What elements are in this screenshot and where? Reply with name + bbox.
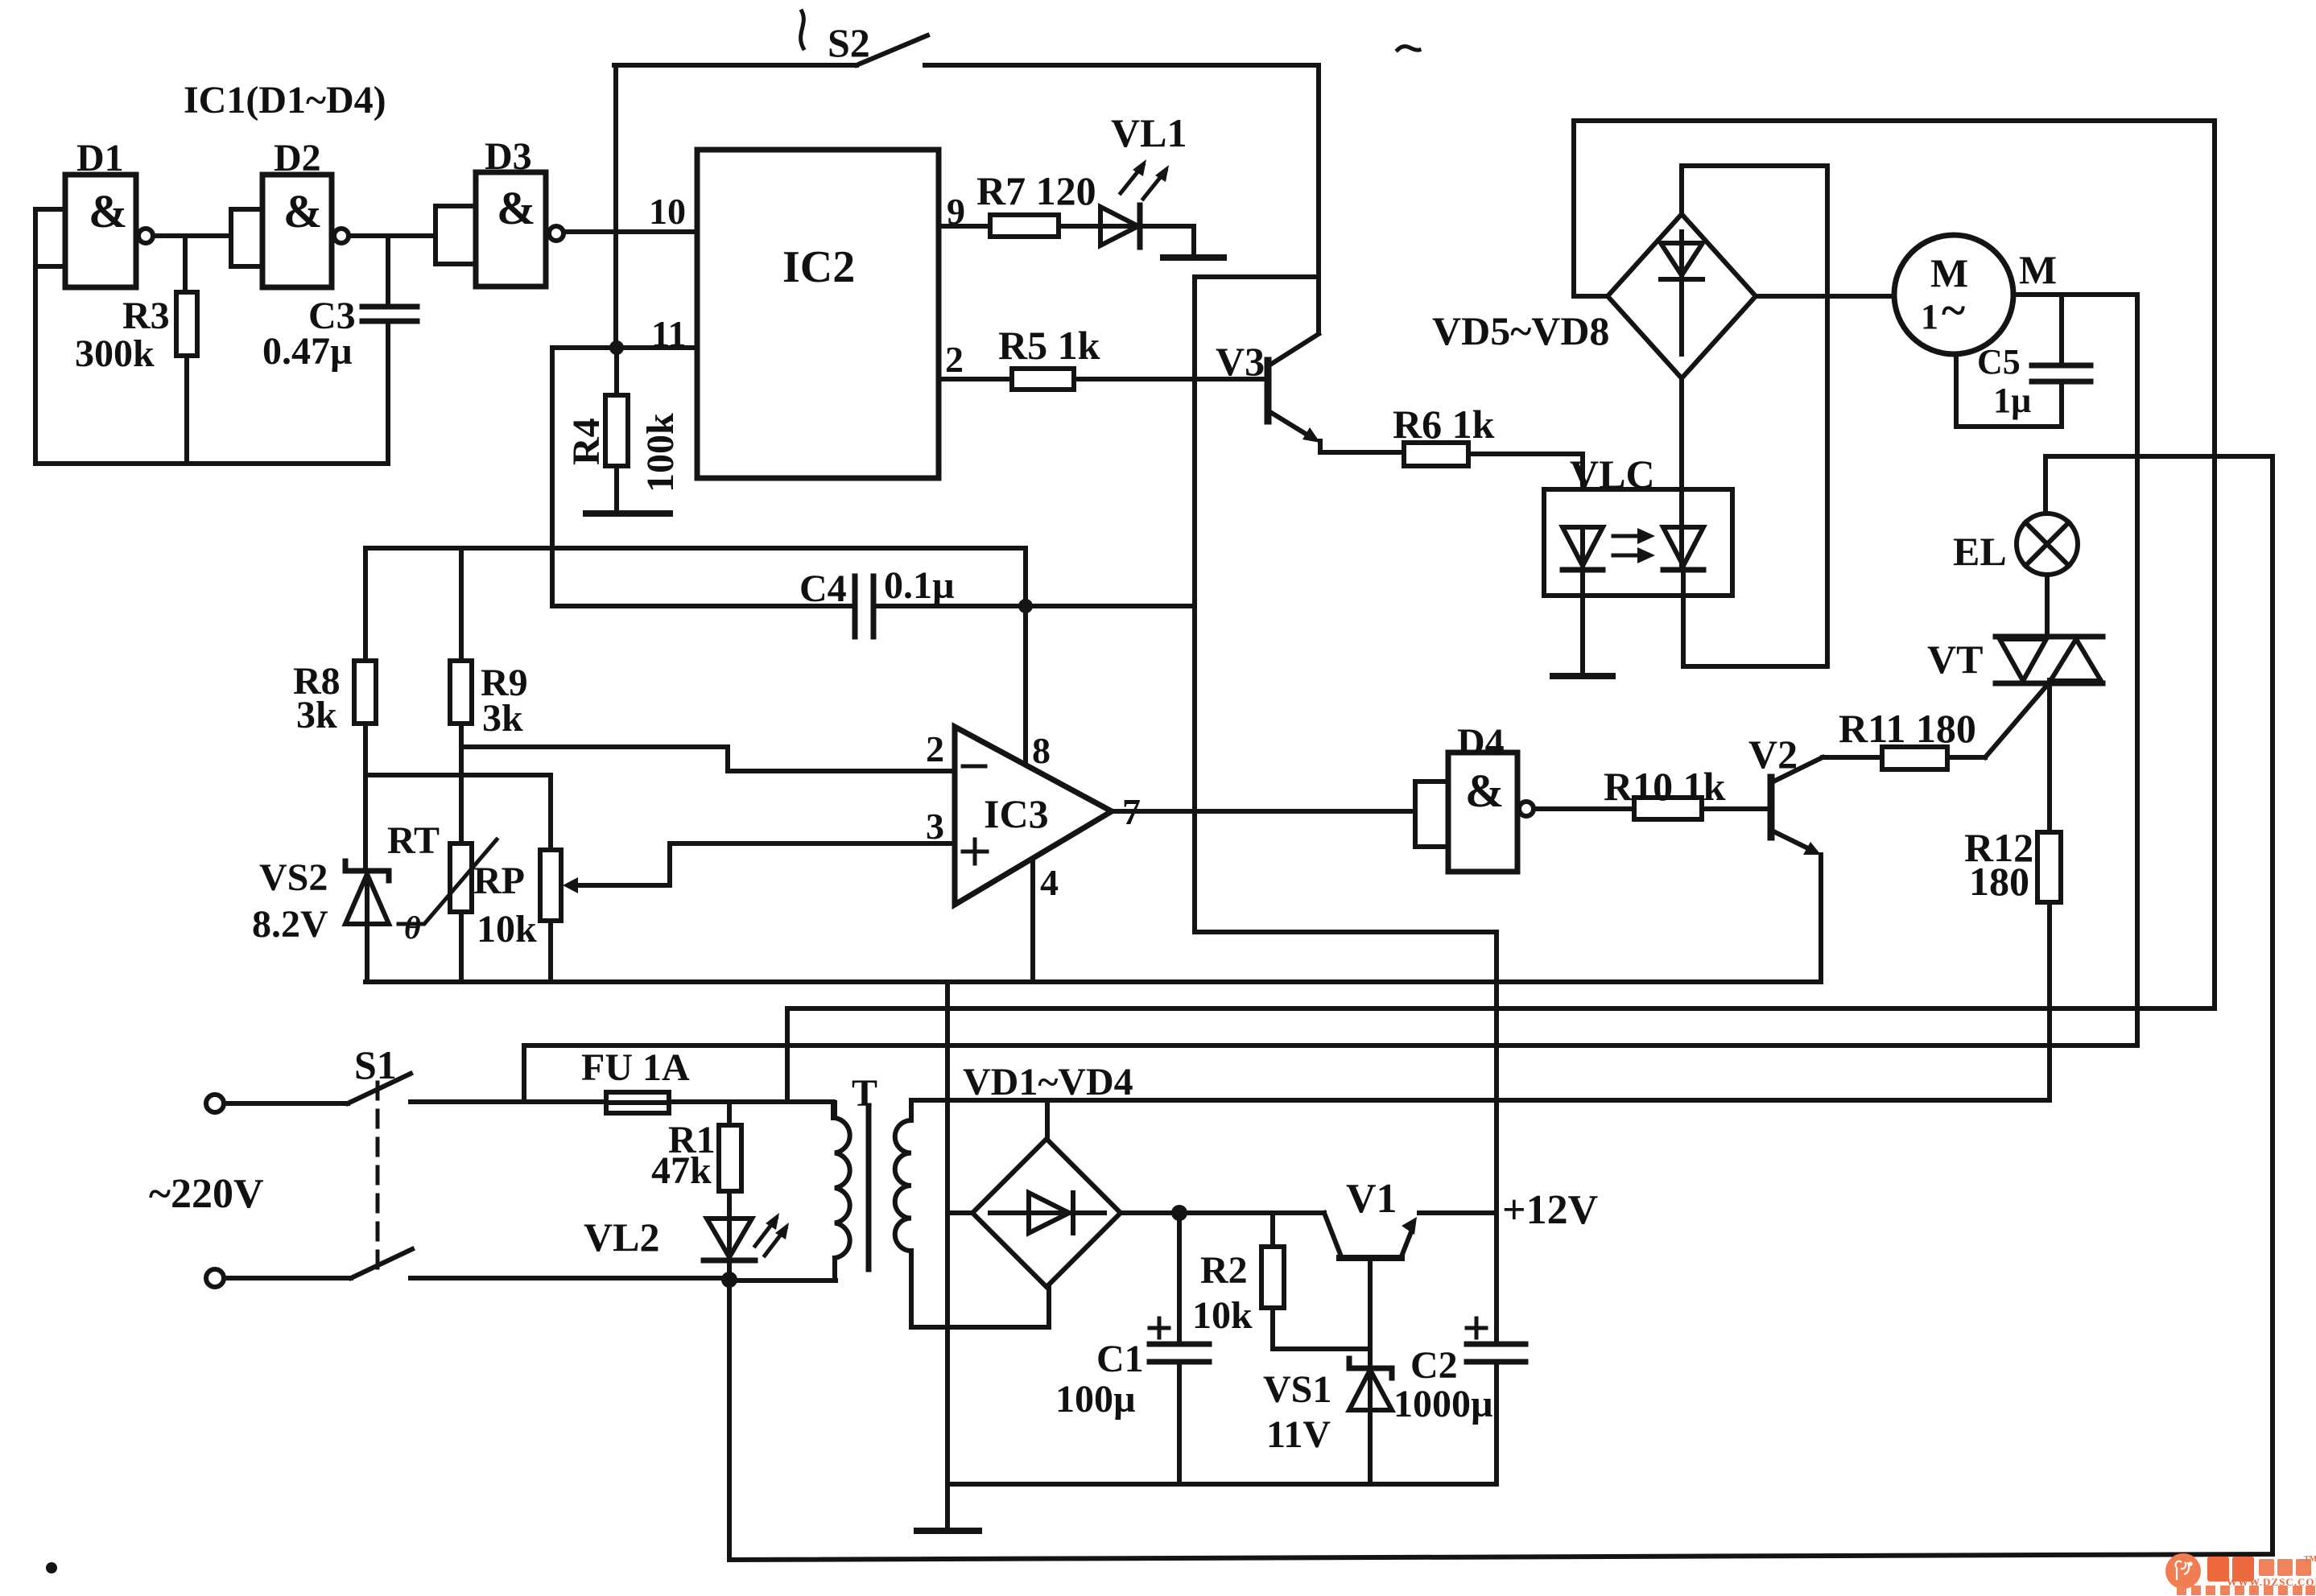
wire R4 to ground xyxy=(614,466,619,512)
svg-text:VS1: VS1 xyxy=(1263,1368,1331,1411)
svg-text:~220V: ~220V xyxy=(149,1171,264,1217)
switch S2 xyxy=(614,20,1319,65)
wire EL node horizontal xyxy=(2046,454,2273,459)
svg-text:8: 8 xyxy=(1032,730,1051,771)
arrows light xyxy=(1613,528,1655,563)
lamp EL xyxy=(1953,513,2078,575)
svg-text:IC1(D1~D4): IC1(D1~D4) xyxy=(184,79,386,122)
node C1 junction xyxy=(1171,1205,1187,1221)
wire R3 top drop xyxy=(183,236,188,292)
svg-text:FU 1A: FU 1A xyxy=(581,1046,690,1089)
wire VS2 bottom xyxy=(365,924,369,982)
wire R11 to VT gate xyxy=(1947,755,1985,760)
zener VS2 xyxy=(252,856,389,946)
svg-text:RP: RP xyxy=(473,860,525,902)
wire bridge DC+ loop to VLC xyxy=(1682,166,1827,666)
wire bottom rail IC1 xyxy=(35,461,388,466)
svg-text:11V: 11V xyxy=(1266,1413,1331,1456)
wire pin 9 xyxy=(939,224,990,229)
svg-text:3k: 3k xyxy=(482,697,523,740)
wire C4 left xyxy=(552,604,855,608)
wire ground drop from rail H_a xyxy=(945,982,950,1529)
svg-text:D4: D4 xyxy=(1457,721,1505,764)
and gate D4 xyxy=(1415,721,1534,872)
wire C2 bottom xyxy=(1494,1362,1499,1484)
svg-text:C5: C5 xyxy=(1977,342,2021,381)
wire VL1 to ground xyxy=(1140,226,1194,256)
LED VL2 xyxy=(584,1213,789,1260)
resistor R11 xyxy=(1839,706,1976,769)
wire VLC LED to ground xyxy=(1580,570,1585,673)
wire bridge minus stub xyxy=(947,1210,972,1215)
wire junction to R4 xyxy=(614,348,619,395)
wire rail R8 to RP top xyxy=(365,773,551,777)
wire R1 to VL2 xyxy=(727,1191,732,1219)
op-amp IC3 xyxy=(926,727,1141,905)
svg-text:100k: 100k xyxy=(639,413,682,493)
wire R2 bottom to V1 base xyxy=(1273,1308,1370,1349)
wire neutral from S1 xyxy=(411,1276,729,1281)
svg-text:2: 2 xyxy=(945,339,964,380)
resistor R1 xyxy=(651,1119,741,1192)
svg-text:C2: C2 xyxy=(1410,1344,1458,1387)
bridge rectifier VD5-VD8 xyxy=(1432,214,1756,378)
svg-text:VS2: VS2 xyxy=(259,856,328,899)
zener VS1 xyxy=(1263,1359,1392,1456)
svg-text:4: 4 xyxy=(1040,862,1059,903)
LED VL1 xyxy=(1100,110,1187,247)
wire ground rail H_a xyxy=(365,979,1821,984)
wire C1 top xyxy=(1177,1213,1182,1342)
wire drop to bridge VD1-VD4 top xyxy=(1045,1100,1050,1139)
transformer T secondary xyxy=(852,1072,911,1251)
potentiometer RP xyxy=(473,850,578,951)
wire +12V row left xyxy=(1121,1210,1324,1215)
wire D1 feedback left xyxy=(33,266,38,464)
resistor R9 xyxy=(450,661,528,740)
wire bottom return rail xyxy=(729,456,2273,1560)
svg-text:T: T xyxy=(852,1072,877,1115)
svg-text:~: ~ xyxy=(1942,286,1965,336)
wire S2 left drop to pin 11 node xyxy=(613,65,618,348)
svg-text:VL1: VL1 xyxy=(1111,110,1187,155)
svg-text:θ: θ xyxy=(404,909,421,946)
ground R4 xyxy=(586,510,670,517)
svg-text:IC2: IC2 xyxy=(782,242,855,292)
svg-text:1µ: 1µ xyxy=(1993,381,2031,420)
svg-text:&: & xyxy=(497,182,535,234)
svg-text:D1: D1 xyxy=(76,137,124,179)
wire R8 top xyxy=(363,548,368,661)
svg-text:2: 2 xyxy=(926,728,944,769)
svg-text:R10 1k: R10 1k xyxy=(1604,764,1726,809)
resistor R3 xyxy=(176,292,197,356)
wire IC3 pin 8 xyxy=(1023,606,1028,765)
wire RP bottom xyxy=(548,921,553,982)
wire R6 to VLC xyxy=(1468,454,1583,527)
wire D2 output to D3 xyxy=(349,233,436,238)
node neutral junction xyxy=(721,1272,737,1288)
svg-text:R2: R2 xyxy=(1200,1249,1248,1292)
wire pin 11 xyxy=(552,345,697,350)
svg-text:VD1~VD4: VD1~VD4 xyxy=(963,1061,1133,1103)
wire live feed H2 to motor node xyxy=(524,1045,2137,1102)
triac VT xyxy=(1927,637,2103,757)
svg-text:R4: R4 xyxy=(565,418,608,465)
ground VLC xyxy=(1553,673,1612,679)
wire S2 drop to V3 collector xyxy=(1316,65,1321,333)
wire V3 emitter down xyxy=(1318,441,1323,452)
wire RP top xyxy=(548,775,553,850)
wire R9 top xyxy=(459,548,464,661)
wire R7 to VL1 xyxy=(1059,224,1100,229)
wire C3 bottom xyxy=(386,323,390,464)
wire RP wiper to IC3 pin 3 xyxy=(575,843,955,885)
svg-text:1000µ: 1000µ xyxy=(1393,1383,1493,1425)
LED in VLC xyxy=(1563,527,1603,570)
wire pin 2 xyxy=(939,377,1012,381)
wire VL2 to bottom rail xyxy=(727,1260,732,1559)
svg-text:R6 1k: R6 1k xyxy=(1393,402,1495,447)
wire R8 bottom to VS2 xyxy=(363,724,368,871)
svg-text:10k: 10k xyxy=(1192,1294,1253,1337)
capacitor C5 xyxy=(1977,342,2091,420)
resistor R10 xyxy=(1604,764,1726,819)
wire R1 top xyxy=(727,1102,732,1125)
wire V3 collector box to +12V vertical xyxy=(1195,274,1319,279)
wire V2 emitter to ground rail xyxy=(1819,855,1823,982)
wire +12V vertical (crosses base wire, C4, pin7) xyxy=(1192,277,1197,932)
wire VLC photodiode return xyxy=(1683,570,1827,666)
resistor R7 xyxy=(976,168,1096,237)
transistor V1 xyxy=(1324,1176,1417,1258)
capacitor C1 xyxy=(1055,1318,1209,1421)
switch S1 xyxy=(206,1042,412,1287)
wire C5 loop to motor bottom xyxy=(1956,354,2062,427)
wire motor right xyxy=(2013,292,2137,297)
wire bridge AC to motor xyxy=(1756,294,1894,299)
svg-text:R5 1k: R5 1k xyxy=(998,323,1100,368)
svg-text:3k: 3k xyxy=(296,694,337,736)
resistor R4 xyxy=(565,395,682,493)
transformer T primary xyxy=(835,1103,850,1281)
svg-text:M: M xyxy=(2019,247,2057,292)
svg-text:EL: EL xyxy=(1953,529,2007,574)
svg-text:180: 180 xyxy=(1969,859,2029,904)
svg-text:C4: C4 xyxy=(799,567,847,610)
wire IC3 pin 4 to ground rail xyxy=(1030,860,1035,982)
transistor V2 xyxy=(1748,732,1823,855)
photodiode in VLC xyxy=(1663,378,1703,570)
svg-text:47k: 47k xyxy=(651,1149,712,1192)
svg-text:IC3: IC3 xyxy=(984,791,1049,836)
wire motor node down to live branch xyxy=(2135,295,2140,1045)
wire VT to R12 xyxy=(2047,680,2052,832)
svg-text:TM: TM xyxy=(2304,1555,2316,1564)
node C4 junction xyxy=(1018,599,1033,613)
capacitor C4 xyxy=(799,564,955,637)
wire V1 base down xyxy=(1368,1258,1373,1368)
wire R9 bottom to RT xyxy=(459,724,464,843)
wire primary bottom to neutral xyxy=(729,1278,836,1283)
thermistor RT xyxy=(387,819,497,946)
svg-text:300k: 300k xyxy=(75,332,155,375)
wire C5 tap down xyxy=(2059,295,2064,364)
svg-text:&: & xyxy=(283,185,322,237)
svg-text:10k: 10k xyxy=(477,908,537,951)
watermark logo xyxy=(2165,1553,2316,1595)
transistor V3 xyxy=(1216,334,1320,443)
ink mark small xyxy=(1397,47,1419,51)
svg-text:D3: D3 xyxy=(485,135,532,178)
wire C4 right xyxy=(873,604,1195,608)
svg-text:C1: C1 xyxy=(1096,1338,1144,1380)
resistor R2 xyxy=(1192,1247,1284,1337)
svg-text:0.1µ: 0.1µ xyxy=(884,564,955,607)
wire secondary top to low AC line xyxy=(911,1100,2050,1120)
wire EL to VT xyxy=(2045,575,2050,636)
capacitor C2 xyxy=(1393,1318,1525,1425)
wire stub to bridge VD5-VD8 xyxy=(1574,294,1608,299)
svg-text:8.2V: 8.2V xyxy=(252,903,328,946)
bridge rectifier VD1-VD4 xyxy=(963,1061,1133,1287)
svg-text:RT: RT xyxy=(387,819,440,862)
wire +12V row right xyxy=(1419,1210,1497,1215)
svg-text:3: 3 xyxy=(926,806,944,847)
wire live from S1 xyxy=(411,1099,606,1104)
svg-text:V1: V1 xyxy=(1346,1176,1397,1222)
svg-text:10: 10 xyxy=(649,191,686,232)
and gate D2 xyxy=(231,137,349,287)
wire VS1 bottom xyxy=(1368,1410,1373,1484)
ground main xyxy=(917,1528,979,1534)
resistor R6 xyxy=(1393,402,1495,466)
svg-text:0.47µ: 0.47µ xyxy=(262,330,353,373)
wire D3 output to IC2 pin 10 xyxy=(564,229,697,234)
ground VL1 xyxy=(1163,254,1224,261)
svg-text:VT: VT xyxy=(1927,637,1983,682)
resistor R12 xyxy=(1964,825,2061,904)
IC2 box xyxy=(697,150,939,478)
svg-text:D2: D2 xyxy=(274,137,321,179)
resistor R8 xyxy=(293,660,376,736)
wire RT bottom xyxy=(459,912,464,982)
wire C1 bottom xyxy=(1177,1362,1182,1484)
wire D4 out to R10 xyxy=(1534,806,1634,811)
wire R11 left xyxy=(1823,755,1882,760)
wire IC3 pin 7 to D4 xyxy=(1112,809,1415,814)
wire R10 to V2 base xyxy=(1702,806,1771,811)
transformer T core xyxy=(866,1106,872,1269)
node pin11 junction xyxy=(609,340,624,355)
svg-text:V2: V2 xyxy=(1748,732,1798,777)
wire EL top xyxy=(2043,456,2048,513)
wire top rail above C4 xyxy=(365,548,1026,606)
wire top-right feed box xyxy=(1574,121,2215,296)
wire live after fuse xyxy=(669,1102,833,1118)
wire secondary bottom to bridge bottom xyxy=(911,1251,1049,1327)
motor M xyxy=(1894,235,2057,354)
ink dot bottom left xyxy=(46,1562,57,1573)
ink mark top xyxy=(801,11,804,48)
svg-text:&: & xyxy=(1465,765,1504,817)
svg-text:VL2: VL2 xyxy=(584,1215,659,1260)
svg-text:&: & xyxy=(89,185,127,237)
and gate D1 xyxy=(35,137,153,287)
svg-text:100µ: 100µ xyxy=(1055,1378,1136,1421)
wire IC3 pin 2 from R9 xyxy=(461,747,955,771)
and gate D3 xyxy=(436,135,564,287)
wire R3 bottom xyxy=(184,356,189,464)
fuse FU xyxy=(581,1046,690,1113)
wire C3 top drop xyxy=(386,236,390,305)
svg-text:VLC: VLC xyxy=(1570,452,1655,497)
svg-text:+12V: +12V xyxy=(1502,1187,1598,1233)
wire pin11 left drop to C4 xyxy=(550,348,555,606)
optocoupler VLC xyxy=(1544,452,1732,596)
svg-text:VD5~VD8: VD5~VD8 xyxy=(1432,308,1609,353)
svg-text:1: 1 xyxy=(1921,297,1938,336)
svg-text:R7 120: R7 120 xyxy=(976,168,1096,213)
capacitor C3 xyxy=(262,295,417,373)
wire R12 down to live wire xyxy=(2047,902,2052,1100)
wire D1 output to D2 xyxy=(153,233,231,238)
svg-text:R11 180: R11 180 xyxy=(1839,706,1976,751)
wire R2 top xyxy=(1270,1213,1275,1247)
svg-text:S2: S2 xyxy=(828,20,870,65)
svg-text:R3: R3 xyxy=(122,295,170,337)
wire R5 to V3 base xyxy=(1074,377,1262,381)
wire emitter to R6 xyxy=(1320,450,1404,455)
svg-text:S1: S1 xyxy=(354,1042,397,1087)
wire +12V jog xyxy=(1195,932,1497,1344)
resistor R5 xyxy=(998,323,1100,390)
svg-text:V3: V3 xyxy=(1216,339,1265,384)
wire DC minus rail xyxy=(947,1482,1497,1487)
wire live feed H1 to top box xyxy=(787,121,2215,1102)
